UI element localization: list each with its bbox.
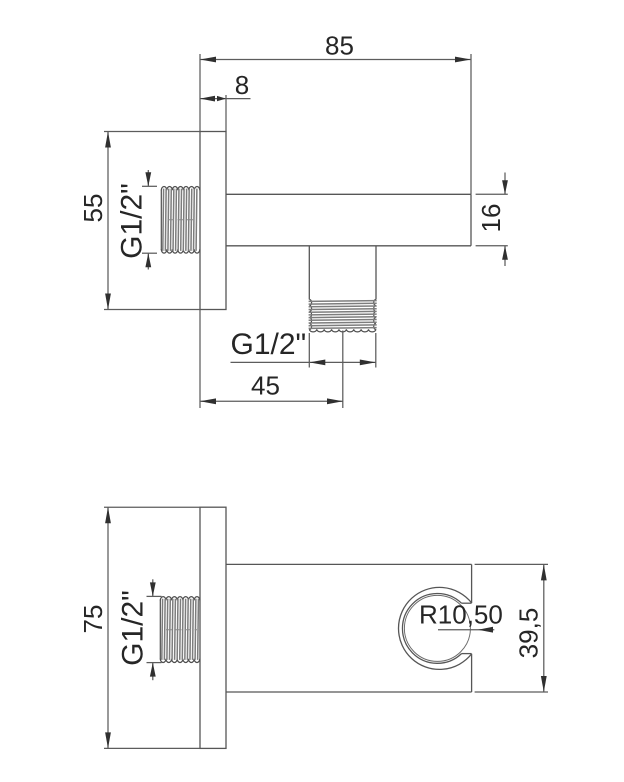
- arm top edge: [226, 193, 471, 195]
- arm bottom edge: [226, 245, 471, 247]
- outlet thread: [309, 300, 377, 332]
- dim G1/2 (bottom) shaft bottom: [152, 663, 154, 681]
- svg-text:G1/2": G1/2": [116, 183, 149, 259]
- dim 45 extension left: [199, 310, 201, 409]
- dim 75 extension top: [104, 506, 200, 508]
- dim G1/2 (outlet) line: [231, 361, 376, 363]
- dim 55 extension top: [104, 131, 200, 133]
- svg-text:G1/2": G1/2": [117, 590, 150, 666]
- dim 16 arrow shaft bottom: [504, 246, 506, 266]
- holder body top edge: [226, 563, 472, 565]
- radius leader arrow: [478, 627, 493, 633]
- holder boss outer arc: [398, 587, 471, 669]
- svg-text:R10,50: R10,50: [419, 600, 503, 630]
- holder chamfer arc: [402, 594, 461, 664]
- svg-text:45: 45: [251, 371, 280, 401]
- svg-text:55: 55: [78, 194, 108, 223]
- dim 39,5 extension top: [475, 563, 548, 565]
- dim 39,5 extension bottom: [475, 691, 548, 693]
- dim 39,5 line: [543, 564, 545, 692]
- dim 55 arrow bottom: [105, 294, 111, 310]
- dim 85 extension line right: [470, 54, 472, 194]
- dim 8 arrow right: [217, 96, 226, 101]
- svg-text:16: 16: [476, 204, 506, 233]
- dim 16 extension top: [476, 193, 508, 195]
- dim 55 line: [107, 132, 109, 310]
- outlet tube right edge: [375, 246, 377, 300]
- wall nipple thread (top view): [161, 187, 200, 254]
- dim 16 arrow shaft top: [504, 173, 506, 195]
- dim G1/2 (bottom) shaft top: [152, 579, 154, 596]
- holder slot upper lip: [462, 602, 472, 604]
- wall plate (bottom view): [200, 507, 226, 748]
- svg-text:G1/2": G1/2": [231, 328, 307, 361]
- dim 85 line: [200, 59, 471, 61]
- dim G1/2 (bottom) tick top: [147, 595, 162, 597]
- dim 85 arrow right: [455, 57, 471, 63]
- dim G1/2 (bottom) tick bottom: [147, 662, 162, 664]
- outlet centerline: [342, 331, 344, 409]
- svg-text:75: 75: [78, 605, 108, 634]
- dim 55 arrow top: [105, 132, 111, 148]
- holder body right edge upper: [471, 564, 473, 603]
- dim 75 extension bottom: [104, 747, 200, 749]
- dim 8 arrow left: [200, 96, 215, 102]
- arm right edge: [470, 194, 472, 246]
- dim 8 line: [200, 98, 251, 100]
- wall nipple thread (bottom view): [160, 597, 200, 663]
- dim 55 extension bottom: [104, 309, 200, 311]
- dim 8 extension line right: [225, 95, 227, 132]
- holder slot lower lip: [462, 653, 472, 655]
- radius leader line: [438, 629, 494, 631]
- dim 75 line: [107, 507, 109, 748]
- holder body bottom edge: [226, 691, 472, 693]
- dim G1/2 (outlet) extension left: [308, 333, 310, 368]
- dim 85 arrow left: [200, 57, 216, 63]
- dim 16 extension bottom: [476, 245, 508, 247]
- holder body right edge lower: [471, 654, 473, 692]
- outlet tube left edge: [308, 246, 310, 300]
- dim G1/2 (outlet) extension right: [375, 333, 377, 368]
- dim 85 extension line left (shared with dim 8): [199, 54, 201, 132]
- dim G1/2 (wall nipple) arrow shaft top: [147, 170, 149, 186]
- thread axis dash: [168, 219, 196, 221]
- svg-text:39,5: 39,5: [514, 608, 544, 659]
- dim G1/2 tick top: [142, 185, 157, 187]
- dim G1/2 arrow shaft bottom: [147, 253, 149, 269]
- svg-text:85: 85: [325, 31, 354, 61]
- wall plate (top view): [200, 132, 226, 310]
- svg-text:8: 8: [235, 70, 249, 100]
- dim G1/2 tick bottom: [142, 252, 157, 254]
- holder hole circle R10.5: [404, 595, 470, 661]
- thread axis dash (bottom): [166, 629, 197, 631]
- dim 45 line: [200, 400, 343, 402]
